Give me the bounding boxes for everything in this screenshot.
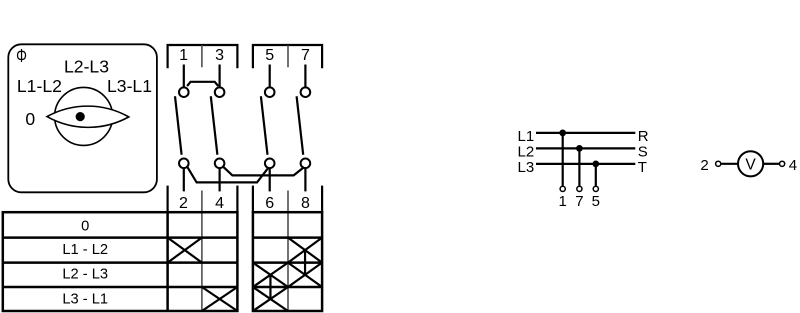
contact group 2 top bracket	[253, 45, 322, 68]
svg-text:3: 3	[215, 47, 224, 64]
voltmeter left terminal circle	[716, 161, 721, 166]
svg-text:S: S	[638, 143, 648, 160]
svg-text:T: T	[638, 159, 647, 176]
moving contact circle terminal 8	[301, 159, 311, 169]
terminal 1 lead wire	[183, 65, 185, 88]
table row line 3	[3, 286, 238, 289]
fixed contact circle terminal 7	[301, 87, 311, 97]
closed-contact cross column 8 row L1-L2	[288, 238, 322, 263]
svg-text:0: 0	[25, 109, 35, 129]
voltmeter left wire	[721, 163, 737, 165]
group 2 row line 2	[253, 261, 322, 264]
link wire terminal 2 to terminal 6	[187, 167, 268, 183]
terminal 2 bottom wire	[183, 168, 185, 191]
table divider labels/columns	[166, 212, 169, 311]
moving contact arm pole 5-6	[261, 96, 268, 155]
group 2 row line 1	[253, 236, 322, 239]
terminal 3 lead wire	[219, 65, 221, 88]
svg-text:L2: L2	[518, 143, 535, 160]
bottom bracket tick right of column 8	[321, 186, 323, 213]
svg-text:L2 - L3: L2 - L3	[62, 267, 108, 283]
svg-text:7: 7	[575, 193, 583, 210]
closed-contact cross column 8 row L2-L3	[288, 263, 322, 287]
svg-text:L1: L1	[518, 128, 535, 145]
bottom bracket tick left of column 2	[167, 186, 169, 213]
moving contact arm pole 1-2	[175, 96, 182, 155]
closed-contact cross column 2 row L1-L2	[168, 238, 202, 263]
svg-text:5: 5	[265, 47, 274, 64]
knob circle	[55, 87, 113, 145]
moving contact circle terminal 2	[179, 159, 189, 169]
svg-text:L3 - L1: L3 - L1	[62, 292, 108, 308]
svg-text:L3: L3	[518, 159, 535, 176]
fixed contact circle terminal 3	[215, 87, 225, 97]
junction dot on L3	[592, 161, 599, 168]
svg-text:7: 7	[301, 47, 310, 64]
group 2 row line 3	[253, 286, 322, 289]
svg-text:L1-L2: L1-L2	[17, 76, 62, 96]
column separator between 2 and 4	[201, 191, 203, 311]
terminal circle 1	[560, 186, 565, 191]
contact group 1 top bracket	[168, 45, 238, 68]
knob pointer handle	[47, 106, 129, 127]
moving contact circle terminal 4	[215, 159, 225, 169]
supply wire L1	[536, 132, 635, 134]
svg-text:L3-L1: L3-L1	[107, 76, 152, 96]
svg-text:2: 2	[179, 195, 188, 212]
terminal 5 lead wire	[269, 65, 271, 88]
knob center dot	[76, 112, 85, 121]
voltmeter right terminal circle	[780, 161, 785, 166]
voltmeter right wire	[764, 163, 779, 165]
svg-text:5: 5	[592, 193, 600, 210]
moving contact circle terminal 6	[265, 159, 275, 169]
table row line 1	[3, 236, 238, 239]
moving contact arm pole 7-8	[297, 96, 304, 155]
closed-contact cross column 6 row L3-L1	[253, 287, 288, 311]
terminal circle 7	[577, 186, 582, 191]
junction dot on L1	[559, 130, 566, 137]
supply wire L3	[536, 163, 635, 165]
terminal circle 5	[593, 186, 598, 191]
svg-text:1: 1	[559, 193, 567, 210]
svg-text:8: 8	[301, 195, 310, 212]
column separator between 6 and 8	[287, 191, 289, 311]
terminal 7 lead wire	[304, 65, 306, 88]
svg-text:4: 4	[215, 195, 224, 212]
closed-contact cross column 6 row L2-L3	[253, 263, 288, 287]
moving contact arm pole 3-4	[211, 96, 218, 155]
link wire terminal 4 to terminal 8	[223, 167, 304, 176]
voltmeter V1 body	[738, 151, 763, 176]
svg-text:6: 6	[265, 195, 274, 212]
svg-text:2: 2	[700, 157, 708, 174]
continuity tick column 6 rows L2-L3/L3-L1	[269, 275, 271, 299]
table row line 2	[3, 261, 238, 264]
continuity tick column 8 rows L1-L2/L2-L3	[304, 250, 306, 275]
svg-text:0: 0	[81, 218, 89, 234]
fixed contact circle terminal 5	[265, 87, 275, 97]
contact group 1 top mid tick	[201, 45, 203, 67]
bridge wire linking terminals 1 and 3	[187, 82, 218, 86]
contact group 2 top mid tick	[287, 45, 289, 67]
bottom bracket tick left of column 6	[252, 186, 254, 213]
svg-text:R: R	[638, 128, 649, 145]
switching table main box	[3, 212, 238, 311]
fixed contact circle terminal 1	[179, 87, 189, 97]
tap wire from L3 to terminal 5	[595, 164, 597, 186]
junction dot on L2	[576, 145, 583, 152]
switching table group 2 box	[253, 212, 322, 311]
terminal 6 bottom wire	[269, 168, 271, 191]
closed-contact cross column 4 row L3-L1	[202, 287, 238, 311]
svg-text:Φ: Φ	[16, 46, 27, 66]
svg-text:V: V	[745, 157, 756, 174]
svg-text:L2-L3: L2-L3	[64, 56, 109, 76]
svg-text:4: 4	[789, 157, 797, 174]
svg-text:1: 1	[179, 47, 188, 64]
tap wire from L2 to terminal 7	[578, 148, 580, 185]
selector switch front-plate box	[8, 44, 157, 192]
tap wire from L1 to terminal 1	[562, 133, 564, 186]
terminal 4 bottom wire	[219, 168, 221, 191]
svg-text:L1 - L2: L1 - L2	[62, 242, 108, 258]
terminal 8 bottom wire	[304, 168, 306, 191]
bottom bracket tick right of column 4	[236, 186, 238, 213]
supply wire L2	[536, 147, 635, 149]
